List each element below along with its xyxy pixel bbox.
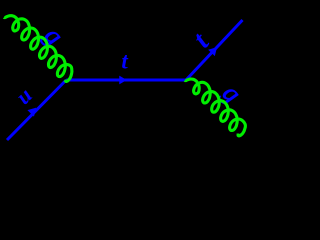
svg-text:t: t: [121, 49, 128, 74]
arrow on u quark line: [27, 108, 36, 117]
arrow on t propagator: [119, 76, 127, 85]
incoming gluon g: curly line from top-left to left vertex: [4, 16, 72, 82]
incoming u quark line from bottom-left to left vertex: [7, 80, 66, 140]
t quark propagator: horizontal line between vertices: [66, 79, 186, 82]
outgoing gluon g: curly line from right vertex to bottom-right: [185, 79, 246, 136]
outgoing t quark line from right vertex to top-right: [186, 20, 243, 80]
arrow on outgoing t quark line: [208, 47, 217, 56]
